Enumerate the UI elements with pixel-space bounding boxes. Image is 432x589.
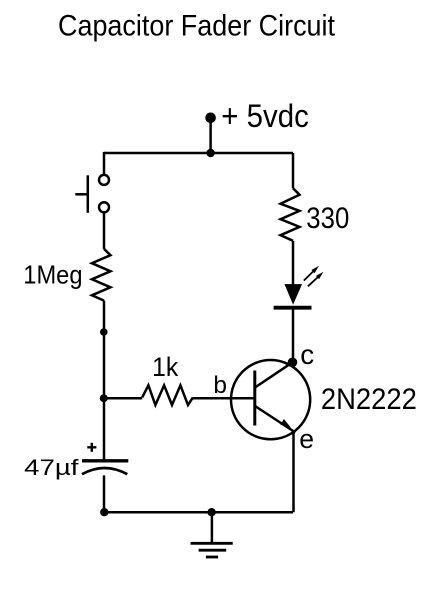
wire resistor to LED [292, 241, 295, 286]
svg-text:2N2222: 2N2222 [321, 383, 417, 416]
svg-text:c: c [300, 339, 314, 370]
node top junction [206, 149, 214, 157]
wire base branch [104, 397, 142, 400]
svg-text:e: e [299, 424, 314, 454]
node left mid [100, 328, 108, 336]
resistor R2 1k [142, 385, 193, 405]
wire left rail upper [103, 152, 106, 174]
+5vdc supply terminal dot [205, 113, 216, 124]
wire ground stub [211, 512, 214, 543]
base bar [253, 371, 256, 426]
svg-text:Capacitor Fader Circuit: Capacitor Fader Circuit [58, 10, 336, 43]
resistor R3 330 [281, 188, 300, 241]
wire right rail upper [292, 153, 295, 188]
svg-text:1k: 1k [152, 352, 179, 382]
wire capacitor to bottom rail [103, 475, 106, 512]
node base branch [100, 394, 108, 402]
wire top rail [104, 152, 293, 155]
label + polarity [87, 443, 96, 452]
pushbutton switch S1 [75, 175, 109, 213]
LED cathode bar [274, 306, 312, 310]
svg-text:b: b [213, 372, 227, 399]
capacitor C1 47uf [82, 461, 128, 474]
wire resistor to node [103, 301, 106, 399]
transistor Q1 2N2222 [231, 360, 310, 439]
wire 1k to base [193, 397, 256, 400]
node ground junction [207, 508, 215, 516]
node bottom left [100, 508, 108, 516]
svg-text:330: 330 [306, 202, 349, 235]
svg-text:+ 5vdc: + 5vdc [221, 98, 308, 134]
svg-text:47µf: 47µf [24, 455, 79, 480]
resistor R1 1Meg [92, 249, 111, 301]
LED light arrows [304, 266, 324, 286]
collector line [255, 362, 293, 387]
wire bottom rail [104, 511, 293, 514]
wire supply stub [209, 118, 212, 153]
svg-text:1Meg: 1Meg [23, 260, 82, 290]
emitter line with arrow [255, 406, 295, 433]
wire switch to resistor [103, 213, 106, 249]
node collector dot [288, 358, 298, 368]
ground [191, 543, 233, 557]
LED D1 [285, 285, 301, 304]
wire emitter down [292, 433, 295, 513]
wire left rail to capacitor [103, 398, 106, 460]
wire LED to collector [292, 308, 295, 363]
